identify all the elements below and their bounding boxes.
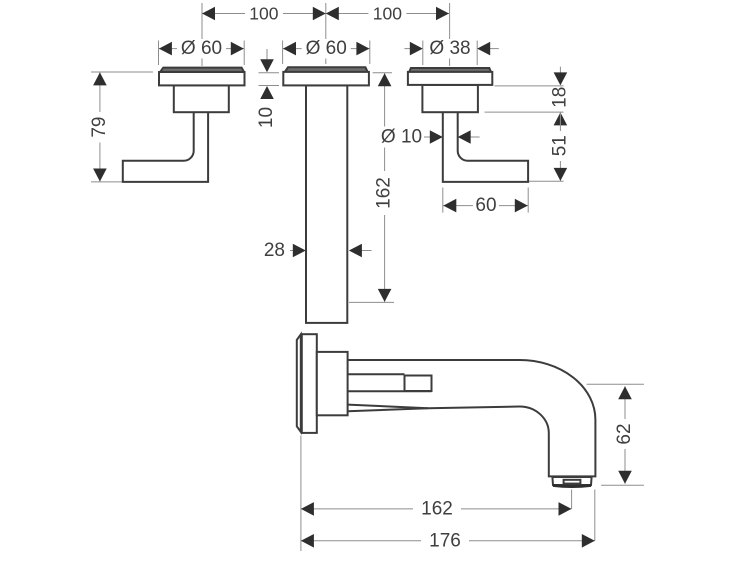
svg-text:Ø 60: Ø 60	[181, 38, 222, 59]
dim Ø60 left line	[159, 48, 245, 50]
svg-text:18: 18	[550, 87, 571, 108]
dim Ø10 tails	[424, 136, 430, 138]
left handle rosette rim	[160, 68, 244, 72]
dim Ø38 label	[426, 39, 475, 59]
dim Ø60 middle ext lines	[282, 41, 284, 65]
dim 18 arrows	[554, 72, 568, 85]
svg-text:176: 176	[429, 530, 461, 551]
dim Ø60 middle arrows	[283, 42, 296, 56]
dim 10 middle tail	[266, 49, 268, 60]
dim 18 ticks	[495, 85, 564, 87]
dim 79 ticks	[91, 71, 153, 73]
svg-text:79: 79	[89, 117, 110, 138]
svg-text:60: 60	[475, 195, 496, 216]
dim Ø10 arrows	[430, 130, 443, 144]
dim 60 line	[443, 205, 528, 207]
spout flange	[302, 334, 317, 433]
dim 100 arrows	[202, 7, 215, 21]
dim 51 label	[552, 131, 570, 161]
dim Ø60 left ext lines	[158, 41, 160, 66]
right handle body	[422, 85, 478, 112]
aerator cap	[552, 477, 591, 485]
svg-text:100: 100	[373, 4, 402, 24]
dim Ø38 tails	[404, 48, 410, 50]
dim 162 vertical label	[376, 171, 394, 215]
dim 60 label	[473, 196, 499, 216]
dim 162 vertical ticks	[373, 72, 392, 74]
dim 100/100 line	[202, 13, 449, 15]
spout escutcheon cone	[317, 352, 348, 415]
dim 62 line	[624, 386, 626, 484]
dim 162 vertical line	[384, 73, 386, 302]
left handle rosette	[159, 72, 245, 85]
dim Ø60 middle label	[302, 39, 351, 59]
centerline right handle	[449, 3, 451, 66]
svg-text:62: 62	[614, 423, 635, 444]
svg-text:162: 162	[421, 498, 453, 519]
dim Ø10 label	[377, 127, 425, 148]
spout body	[348, 360, 596, 476]
spout cartridge top line	[348, 373, 405, 375]
dim 51 tick	[529, 180, 564, 182]
spout wall plate	[297, 334, 301, 432]
dim 62 label	[616, 419, 634, 449]
dim 51 arrow	[554, 168, 568, 181]
dim Ø60 left label	[177, 39, 226, 59]
spout cartridge bottom line	[348, 390, 432, 392]
dim 162 bottom line	[301, 508, 572, 510]
dim 79 line	[99, 72, 101, 181]
ext line aerator	[571, 490, 573, 510]
svg-text:Ø 10: Ø 10	[381, 127, 422, 148]
dim 176 label	[421, 531, 469, 551]
dim 18 tail	[559, 67, 561, 73]
left handle lever	[123, 112, 208, 182]
middle rosette rim	[285, 67, 368, 72]
dim Ø60 left arrows	[159, 42, 172, 56]
left handle body	[174, 85, 229, 112]
spout cartridge end box	[405, 376, 432, 392]
dim 162 bottom label	[413, 499, 461, 519]
dim 28 tails	[290, 250, 293, 252]
svg-text:28: 28	[264, 240, 285, 261]
right handle lever	[443, 112, 528, 182]
dim Ø38 ext lines	[422, 41, 424, 66]
ext line spout left	[300, 436, 302, 552]
aerator inset	[564, 480, 581, 484]
svg-text:10: 10	[256, 107, 277, 128]
dim 10 arrows	[260, 59, 274, 72]
dim 28 arrows	[293, 244, 306, 258]
dim Ø38 arrows	[410, 42, 423, 56]
ext line spout tip	[594, 490, 596, 542]
dim 162 vertical arrows	[378, 73, 392, 86]
centerline middle spout column	[325, 3, 327, 64]
dim 176 arrows	[301, 534, 314, 548]
aerator cap bottom edge	[553, 485, 591, 486]
dim 62 ticks	[587, 383, 644, 385]
right handle rosette	[408, 72, 492, 85]
dim 100 right label	[368, 4, 406, 23]
dim 60 arrows	[443, 199, 456, 213]
dim 28 label	[260, 241, 289, 261]
dim 176 line	[301, 540, 595, 542]
dim 51 line	[559, 112, 561, 180]
spout column	[306, 85, 347, 323]
svg-text:Ø 38: Ø 38	[429, 38, 470, 59]
centerline left handle	[201, 3, 203, 66]
svg-text:100: 100	[249, 4, 278, 24]
dim 162 bottom arrows	[301, 502, 314, 516]
dim 10 ticks	[259, 72, 280, 74]
dim 100 left label	[245, 4, 283, 23]
spout underside taper line	[348, 408, 428, 411]
dim 62 arrows	[618, 386, 632, 399]
svg-text:51: 51	[549, 135, 570, 156]
middle rosette	[283, 72, 369, 86]
dim 79 label	[91, 112, 109, 143]
dim 79 arrows	[93, 72, 107, 85]
svg-text:Ø 60: Ø 60	[306, 38, 347, 59]
dim 60 ext lines	[442, 188, 444, 213]
right handle rosette rim	[409, 68, 491, 72]
svg-text:162: 162	[374, 177, 395, 209]
dim Ø60 middle line	[283, 48, 370, 50]
